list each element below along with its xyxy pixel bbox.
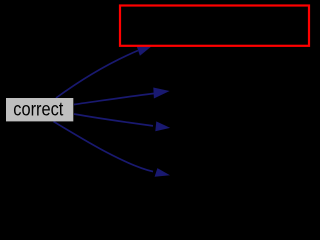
- node correct: [6, 98, 73, 121]
- edge 1: correct -> truncated red node (wire): [56, 46, 152, 98]
- node: truncated red box (label black-on-black, invisible): [120, 6, 309, 46]
- edge 2: correct -> node 2 (wire): [74, 88, 170, 105]
- edge 3: correct -> node 3 (wire): [74, 114, 170, 131]
- svg-text:correct: correct: [13, 98, 63, 120]
- edge 4: correct -> node 4 (wire): [54, 122, 171, 177]
